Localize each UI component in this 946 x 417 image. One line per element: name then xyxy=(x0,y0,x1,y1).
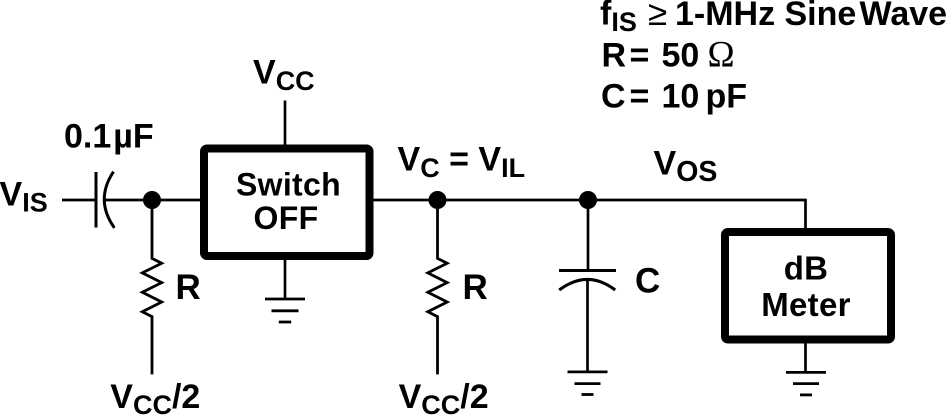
svg-text:R: R xyxy=(463,268,488,307)
svg-text:Switch: Switch xyxy=(236,167,341,203)
svg-text:C: C xyxy=(635,262,660,301)
svg-text:fIS≥1-MHzSineWave: fIS≥1-MHzSineWave xyxy=(600,0,946,37)
svg-text:0.1µF: 0.1µF xyxy=(64,118,154,156)
svg-text:R: R xyxy=(176,268,201,307)
svg-text:dB: dB xyxy=(784,250,829,287)
svg-text:C=10pF: C=10pF xyxy=(601,77,747,115)
svg-text:Meter: Meter xyxy=(761,286,851,323)
svg-text:OFF: OFF xyxy=(254,200,319,236)
svg-text:R=50Ω: R=50Ω xyxy=(602,34,735,75)
